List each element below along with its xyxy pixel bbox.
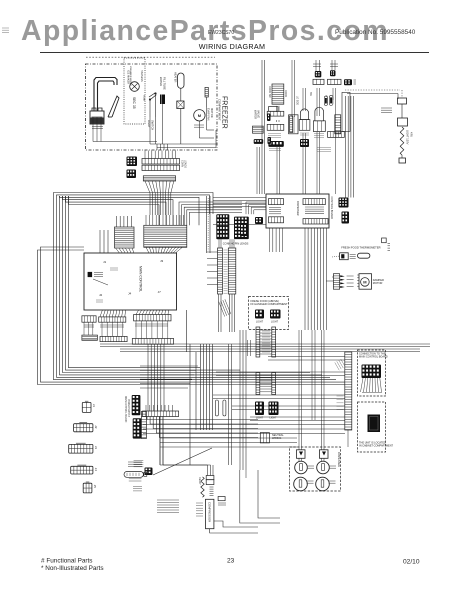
svg-text:FF HANDLER COMPARTMENT: FF HANDLER COMPARTMENT <box>251 302 288 306</box>
wires grids to ladders <box>218 239 220 248</box>
long bundle board to dispenser <box>304 228 306 330</box>
dispenser board tiny text <box>269 207 281 209</box>
right chain text <box>381 107 392 109</box>
board bar connector top-left <box>269 199 284 205</box>
edge ladder strip right <box>228 248 236 294</box>
svg-text:40W: 40W <box>410 132 413 138</box>
damper hatch ticks <box>357 274 359 276</box>
svg-text:WIRING: WIRING <box>272 437 281 440</box>
board bottom strip J20 <box>82 316 96 322</box>
stack2 black grid <box>268 141 283 147</box>
nested corner block center-left <box>140 365 198 367</box>
solenoid coil circle 3 <box>294 477 308 491</box>
dashed box 2 black component <box>368 415 381 433</box>
svg-text:CUBE: CUBE <box>143 95 145 102</box>
defrost thermostat circle <box>194 110 205 121</box>
cabinet dotted boundary top <box>86 56 215 58</box>
stack5 dome switch <box>315 107 324 121</box>
damper pin labels <box>347 275 354 277</box>
left bundle corners to horizontal runs <box>38 352 345 385</box>
mid-left black pin strip upper <box>132 395 141 415</box>
rotated text below ladders <box>219 299 231 316</box>
compressor harness connector <box>145 468 153 476</box>
freezer door plug label <box>92 126 103 128</box>
svg-text:J1: J1 <box>103 260 107 264</box>
small connector left of board <box>255 217 263 224</box>
connector strip above compressor <box>143 411 179 417</box>
svg-text:MOTOR: MOTOR <box>210 108 214 118</box>
dispenser solenoid dashed box <box>290 447 341 491</box>
wires stacks to power board <box>256 147 258 194</box>
svg-text:EW23CS70: EW23CS70 <box>208 30 234 36</box>
svg-text:RELAY: RELAY <box>198 477 201 485</box>
horizontal runs upper center <box>100 343 430 345</box>
ladder tiny labels <box>224 249 228 251</box>
right wide bar strip <box>328 132 345 138</box>
wires into board left <box>213 197 266 199</box>
CONN 40 pin grid left <box>216 214 229 239</box>
stack5 pin grid b <box>330 70 336 76</box>
svg-text:LIGHT: LIGHT <box>271 321 279 324</box>
connector J1 <box>82 402 91 412</box>
svg-text:J5: J5 <box>93 485 97 489</box>
second strip row J22 <box>82 335 98 340</box>
svg-text:# Functional Parts: # Functional Parts <box>41 558 93 565</box>
board bottom strip J21 <box>99 317 126 322</box>
svg-text:LIGHT: LIGHT <box>256 321 264 324</box>
right ladder labels rotated <box>335 359 345 370</box>
vertical bundle center descent <box>200 344 202 430</box>
fanout below freezer strips <box>145 181 150 193</box>
stack2 small box <box>269 107 278 112</box>
defrost heater element <box>205 87 208 97</box>
svg-text:ICEMAKER WIRING: ICEMAKER WIRING <box>129 66 132 86</box>
stack5 pin grid a <box>315 71 322 77</box>
board bar connector bottom-left <box>269 217 284 223</box>
svg-text:J3: J3 <box>160 259 164 263</box>
svg-text:J3: J3 <box>94 446 98 450</box>
twisted pair wire with dots <box>206 196 208 253</box>
svg-text:LIGHT: LIGHT <box>147 120 151 128</box>
power fuse capsule <box>124 472 143 478</box>
CONN 40 pin grid right <box>234 217 249 240</box>
long runs to right ladder <box>268 356 345 358</box>
svg-text:FILL TUBE: FILL TUBE <box>163 77 167 90</box>
svg-text:FRESH FOOD THERMOMETER: FRESH FOOD THERMOMETER <box>341 246 380 250</box>
freezer connector strip row 3 hatched <box>143 176 175 181</box>
right chain resistor <box>400 127 404 155</box>
freezer compartment dashed box <box>86 64 218 150</box>
left pair wire vertical <box>37 253 39 352</box>
board bottom wide strip <box>134 315 171 321</box>
svg-text:J4: J4 <box>94 468 98 472</box>
svg-text:MAIN CONTROL BOARD: MAIN CONTROL BOARD <box>124 396 127 423</box>
compressor bottom wire <box>210 529 258 533</box>
svg-text:IN CABINET COMPARTMENT: IN CABINET COMPARTMENT <box>359 445 394 448</box>
board left black grid <box>240 224 248 236</box>
svg-text:POWER SUPPLY: POWER SUPPLY <box>127 399 129 418</box>
bottom-left text block <box>134 460 144 462</box>
wires below edge ladders <box>218 294 220 332</box>
svg-text:J7: J7 <box>158 290 162 294</box>
svg-text:HI SIDE: HI SIDE <box>325 95 327 104</box>
diagonal harness wire <box>153 448 212 475</box>
svg-text:DOOR: DOOR <box>284 90 287 97</box>
freezer internal wires <box>149 117 151 144</box>
stack labels rows <box>268 133 281 135</box>
neutral junction box <box>260 433 269 443</box>
dotted line top right <box>345 89 400 91</box>
svg-text:LIGHT: LIGHT <box>270 417 278 420</box>
defrost heater label <box>194 124 204 126</box>
thermometer device box <box>340 253 349 260</box>
freezer door plug connector <box>90 111 104 124</box>
water valve connector small grids <box>267 114 271 122</box>
svg-text:Publication No. 5995558540: Publication No. 5995558540 <box>335 29 416 36</box>
compressor labels left <box>196 502 203 504</box>
right harness ladder connector <box>345 352 352 430</box>
bold vertical pair center descent <box>159 417 161 466</box>
svg-text:SWITCH: SWITCH <box>151 120 155 130</box>
vertical droppers from harness <box>186 310 188 352</box>
start relay zigzag <box>201 477 204 497</box>
fanout top-right connector to board <box>146 247 149 253</box>
svg-text:02/10: 02/10 <box>403 559 420 566</box>
second strip row J23 <box>100 336 127 341</box>
connector J2 <box>74 424 93 432</box>
thermometer stub wire <box>332 256 340 257</box>
left harness corner top <box>54 193 214 215</box>
right chain connecting wire <box>401 104 403 118</box>
svg-text:LO SIDE: LO SIDE <box>296 96 298 106</box>
damper motor circle <box>361 278 370 287</box>
freezer light switch <box>149 93 156 99</box>
second strip row wide <box>132 339 173 345</box>
right corridor rect <box>342 92 350 131</box>
left pair corner top <box>38 250 85 253</box>
svg-text:VALVE: VALVE <box>257 110 261 118</box>
bottom strip labels row <box>84 324 94 326</box>
stack5 wide box <box>313 121 325 132</box>
main board connector top-left <box>115 227 135 248</box>
low horizontal runs <box>143 424 345 426</box>
stack2 ladder <box>272 84 284 104</box>
left harness bundle vertical <box>53 196 55 352</box>
capsule labels <box>129 478 142 480</box>
board right pin grid 1 <box>339 198 349 208</box>
center vertical pair down <box>228 344 230 465</box>
fanout top-left connector to board <box>116 248 120 253</box>
svg-text:CONN 40 PIN LEADS: CONN 40 PIN LEADS <box>223 241 249 245</box>
svg-text:MOTOR: MOTOR <box>373 281 383 285</box>
stack4 box <box>299 120 310 131</box>
dashed box 1 pin grid <box>362 365 382 379</box>
board bar connector top-right <box>303 199 325 205</box>
svg-text:MAIN CONTROL: MAIN CONTROL <box>139 266 143 292</box>
damper motor box <box>359 274 372 290</box>
fanout board bottom-right <box>136 310 139 315</box>
stack5 flat box a <box>313 79 324 84</box>
freezer connector strip row 1 <box>142 159 180 165</box>
svg-text:J2: J2 <box>99 293 103 297</box>
wires between strip rows <box>83 322 85 335</box>
vertical pills mid <box>215 400 218 416</box>
water fill connector <box>160 95 165 105</box>
solenoid coil circle 1 <box>295 461 308 474</box>
damper connector pins <box>340 275 345 277</box>
ladder left feed stubs <box>207 251 218 253</box>
compressor relay box <box>206 476 214 480</box>
board bar connector bottom-right <box>303 219 328 224</box>
vertical wires right of switch stacks <box>345 96 347 198</box>
svg-text:LIGHT: LIGHT <box>256 417 264 420</box>
connector J4 <box>71 466 93 474</box>
wires freezer plug to strips <box>144 151 146 159</box>
compressor overload box <box>206 480 214 485</box>
water tube heater pill <box>178 73 184 88</box>
svg-text:LIGHT 120V: LIGHT 120V <box>406 130 410 145</box>
svg-text:WIRING DIAGRAM: WIRING DIAGRAM <box>199 42 266 51</box>
fresh food black grid 1 <box>255 310 264 319</box>
freezer door harness tube <box>108 96 119 117</box>
connection dashed box 2 <box>358 402 386 452</box>
stack4 dome switch <box>300 109 308 120</box>
mid-left ladder strip <box>141 412 146 439</box>
compressor body <box>206 499 214 528</box>
right black grid small <box>344 79 352 85</box>
top middle vertical wires <box>261 60 263 194</box>
edge ladder strip left <box>218 248 223 294</box>
wires into dispenser box <box>298 440 300 450</box>
svg-text:MAIN CONTROL BOARD: MAIN CONTROL BOARD <box>359 356 388 359</box>
short vertical pair <box>247 340 249 356</box>
mid-left black pin strip lower <box>133 418 142 438</box>
right corners into compressor area <box>240 470 280 523</box>
main board connector top-right <box>144 225 187 247</box>
freezer bottom harness wires <box>157 143 216 145</box>
svg-text:CONTROL BOARD: CONTROL BOARD <box>330 197 334 220</box>
svg-text:CONN: CONN <box>181 160 184 167</box>
freezer door plug bottom wires <box>92 124 94 142</box>
freezer harness plug J15 black grid <box>127 157 138 167</box>
svg-text:J4: J4 <box>128 292 132 296</box>
stack2 wide box <box>267 111 284 116</box>
water valve connector hatched <box>253 126 264 133</box>
svg-text:COMPRESSOR: COMPRESSOR <box>207 502 211 522</box>
freezer door harness loop wire <box>94 78 117 112</box>
stack5 flat box b <box>328 79 342 84</box>
fresh food compartment dashed box <box>249 297 289 330</box>
thermometer text <box>350 254 356 256</box>
ptc ticks <box>210 486 214 488</box>
small component above damper <box>382 238 387 243</box>
top pin labels tiny <box>313 63 321 65</box>
stack3 box <box>289 115 298 134</box>
nested corners below strip <box>147 417 258 420</box>
svg-text:DISPENSER: DISPENSER <box>337 452 341 467</box>
inline pair 1 labels <box>262 330 270 332</box>
svg-text:J2: J2 <box>94 425 98 429</box>
harness corners main-to-dispenser <box>179 202 242 225</box>
main board component <box>88 272 93 277</box>
right chain end box <box>399 158 406 163</box>
run capacitor box <box>218 497 225 501</box>
water valve switch 2 <box>320 450 329 459</box>
solenoid coil circle 4 <box>316 477 330 491</box>
fanout board bottom-left <box>100 310 102 317</box>
svg-text:DISPENSER: DISPENSER <box>296 201 299 216</box>
wires out of board bottom-left <box>269 228 271 252</box>
water valve black grid <box>254 139 264 144</box>
connector J5 <box>83 483 92 493</box>
svg-text:HARNESS: HARNESS <box>140 70 143 82</box>
solenoid coil circle 2 <box>317 461 330 474</box>
harness corners upper right <box>246 202 266 214</box>
right tall narrow rect <box>335 115 341 134</box>
connector J3 <box>69 444 93 453</box>
dashed box 1 fanout <box>361 378 364 392</box>
dispenser control board box <box>266 194 329 228</box>
compressor top wires <box>207 465 209 476</box>
svg-text:WATER: WATER <box>159 77 163 86</box>
board right pin grid 2 <box>342 212 350 224</box>
damper connector ladder <box>333 274 339 290</box>
svg-text:SEC 35: SEC 35 <box>132 97 136 109</box>
freezer connector strip row 2 <box>142 165 180 170</box>
svg-text:LEADS: LEADS <box>184 160 187 168</box>
wires into damper <box>332 276 333 278</box>
connection dashed box 1 <box>358 350 386 396</box>
ice maker motor circle <box>130 82 140 92</box>
header rule <box>40 52 429 54</box>
left edge artifact <box>2 27 9 29</box>
inline connector pair 1 <box>256 327 260 357</box>
solenoid labels <box>307 465 314 467</box>
right chain box 2 <box>398 118 408 126</box>
stack4 black grid <box>300 139 309 147</box>
svg-text:DOOR SW: DOOR SW <box>268 86 271 98</box>
svg-text:COMPARTMENT: COMPARTMENT <box>218 99 222 121</box>
fresh food black grid 2 <box>270 310 281 319</box>
top right small component ticks <box>354 79 357 81</box>
freezer harness descent to board connectors <box>149 193 151 215</box>
inline connector pair 2 <box>256 373 260 395</box>
svg-text:J1: J1 <box>92 404 96 408</box>
svg-text:* Non-Illustrated Parts: * Non-Illustrated Parts <box>41 565 104 572</box>
wires into board connectors from above <box>99 230 101 253</box>
freezer harness plug J16 black grid <box>127 170 137 179</box>
right chain box 1 <box>398 98 407 104</box>
fill tube thermostat box <box>177 101 184 109</box>
svg-text:23: 23 <box>227 558 235 565</box>
ptc pill pair <box>324 96 327 106</box>
dashed box 1 pin numbers <box>362 392 382 394</box>
stack2 wide box 2 <box>267 124 284 130</box>
ice maker dotted box <box>124 58 145 124</box>
black grid pair lower <box>255 402 264 416</box>
thermometer capsule <box>358 253 370 258</box>
compressor text block <box>157 499 179 501</box>
main control board box <box>84 253 177 310</box>
water valve switch 1 <box>297 450 306 459</box>
svg-text:HEATER: HEATER <box>174 72 178 82</box>
